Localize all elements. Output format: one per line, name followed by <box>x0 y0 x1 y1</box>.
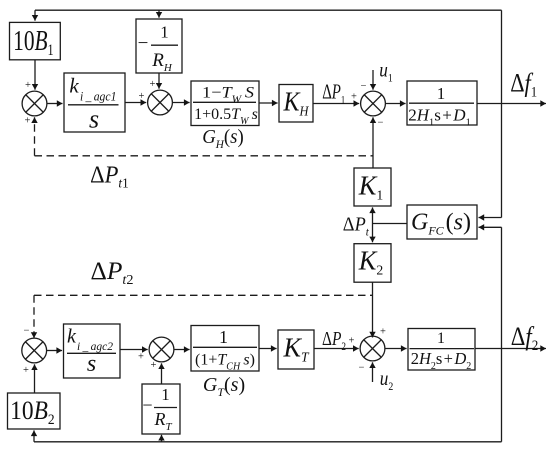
svg-text:i _ agc1: i _ agc1 <box>80 89 117 104</box>
svg-text:+: + <box>349 336 355 347</box>
svg-text:s: s <box>89 104 99 133</box>
svg-text:1: 1 <box>160 23 169 42</box>
svg-text:k: k <box>69 74 79 98</box>
svg-text:ΔPt2: ΔPt2 <box>91 258 134 288</box>
svg-text:−: − <box>138 33 149 54</box>
svg-text:+: + <box>25 116 31 127</box>
svg-text:+: + <box>150 79 156 90</box>
svg-text:+: + <box>25 80 31 91</box>
svg-text:1: 1 <box>437 330 445 347</box>
svg-text:u1​: u1​ <box>379 58 393 85</box>
svg-text:+: + <box>23 365 29 376</box>
svg-text:ΔPt: ΔPt <box>343 214 370 239</box>
svg-text:s: s <box>87 351 96 377</box>
svg-text:+: + <box>138 352 144 363</box>
svg-text:1: 1 <box>161 385 170 404</box>
svg-text:GH​(s): GH​(s) <box>202 126 244 151</box>
svg-text:1: 1 <box>219 327 228 347</box>
svg-text:ΔPt1: ΔPt1 <box>90 163 129 192</box>
svg-text:+: + <box>380 327 386 338</box>
svg-text:1: 1 <box>437 84 446 103</box>
svg-text:−: − <box>361 81 367 92</box>
svg-text:Δf1​: Δf1​ <box>510 69 537 101</box>
svg-text:−: − <box>24 326 30 337</box>
svg-text:GT​(s): GT​(s) <box>203 374 245 399</box>
svg-text:ΔP2: ΔP2 <box>322 328 346 353</box>
svg-text:+: + <box>151 360 157 371</box>
svg-text:Δf2​: Δf2​ <box>511 322 539 354</box>
svg-text:−: − <box>142 395 152 415</box>
svg-text:u2​: u2​ <box>380 366 394 393</box>
svg-text:ΔP1: ΔP1 <box>322 80 345 107</box>
svg-text:−: − <box>359 363 365 374</box>
svg-text:k: k <box>67 326 77 348</box>
svg-text:+: + <box>351 92 357 103</box>
svg-text:+: + <box>139 91 145 102</box>
svg-text:−: − <box>378 118 384 129</box>
